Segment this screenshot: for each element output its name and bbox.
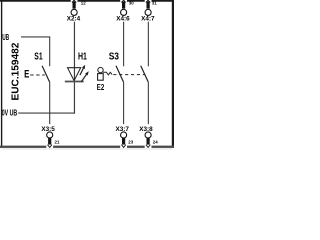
switch S1 blade [42, 66, 50, 83]
svg-text:X4:7: X4:7 [141, 16, 155, 23]
terminal X4:6 pin 30 [116, 0, 134, 23]
net label 0V UB [2, 109, 18, 118]
net label UB [2, 33, 9, 42]
svg-text:12: 12 [81, 1, 86, 6]
svg-text:X3:8: X3:8 [139, 126, 153, 133]
actuator label E [24, 69, 29, 81]
svg-text:H1: H1 [78, 51, 87, 62]
wire UB rail to S1 top contact [21, 37, 50, 66]
svg-text:EUC.159482: EUC.159482 [11, 42, 22, 100]
mechanical dashed link E2 to S3 [113, 74, 144, 76]
wire S1 to X3:5 [49, 82, 51, 124]
svg-text:X4:6: X4:6 [116, 16, 130, 23]
switch S3 label [109, 51, 120, 62]
wire X4:6 to S3 contact 1 [123, 22, 125, 67]
wire X2:4 to H1 to 0V UB rail [73, 22, 75, 114]
terminal X3:7 pin 23 [116, 126, 134, 148]
svg-text:0V UB: 0V UB [2, 109, 18, 118]
net label EUC.159482 (vertical) [11, 42, 22, 100]
switch S3 blade 2 [141, 66, 149, 83]
svg-text:UB: UB [2, 33, 9, 42]
wire S3 contact 1 to X3:7 [123, 82, 125, 124]
svg-text:24: 24 [153, 140, 158, 145]
svg-text:E2: E2 [97, 83, 105, 92]
pushbutton E2 [97, 67, 105, 92]
svg-text:X2:4: X2:4 [67, 16, 81, 23]
terminal X3:5 pin 21 [41, 126, 60, 148]
svg-text:S3: S3 [109, 51, 120, 62]
svg-text:31: 31 [152, 1, 157, 6]
wire 0V UB rail [18, 112, 75, 114]
lamp H1 label [78, 51, 87, 62]
terminal X3:8 pin 24 [139, 126, 158, 148]
svg-text:E: E [24, 69, 29, 81]
switch S1 label [34, 51, 43, 62]
svg-text:30: 30 [129, 1, 134, 6]
wire S3 contact 2 to X3:8 [147, 82, 149, 124]
wire X4:7 to S3 contact 2 [147, 22, 149, 67]
mechanical link E2 zigzag [103, 72, 112, 75]
terminal X2:4 pin 12 [67, 0, 86, 23]
svg-text:21: 21 [55, 140, 60, 145]
lamp H1 (LED symbol) [65, 65, 89, 82]
terminal X4:7 pin 31 [141, 0, 157, 23]
switch S3 blade 1 [116, 66, 124, 83]
svg-text:23: 23 [128, 140, 133, 145]
svg-text:S1: S1 [34, 51, 43, 62]
actuator dashed link to S1 [30, 74, 45, 76]
